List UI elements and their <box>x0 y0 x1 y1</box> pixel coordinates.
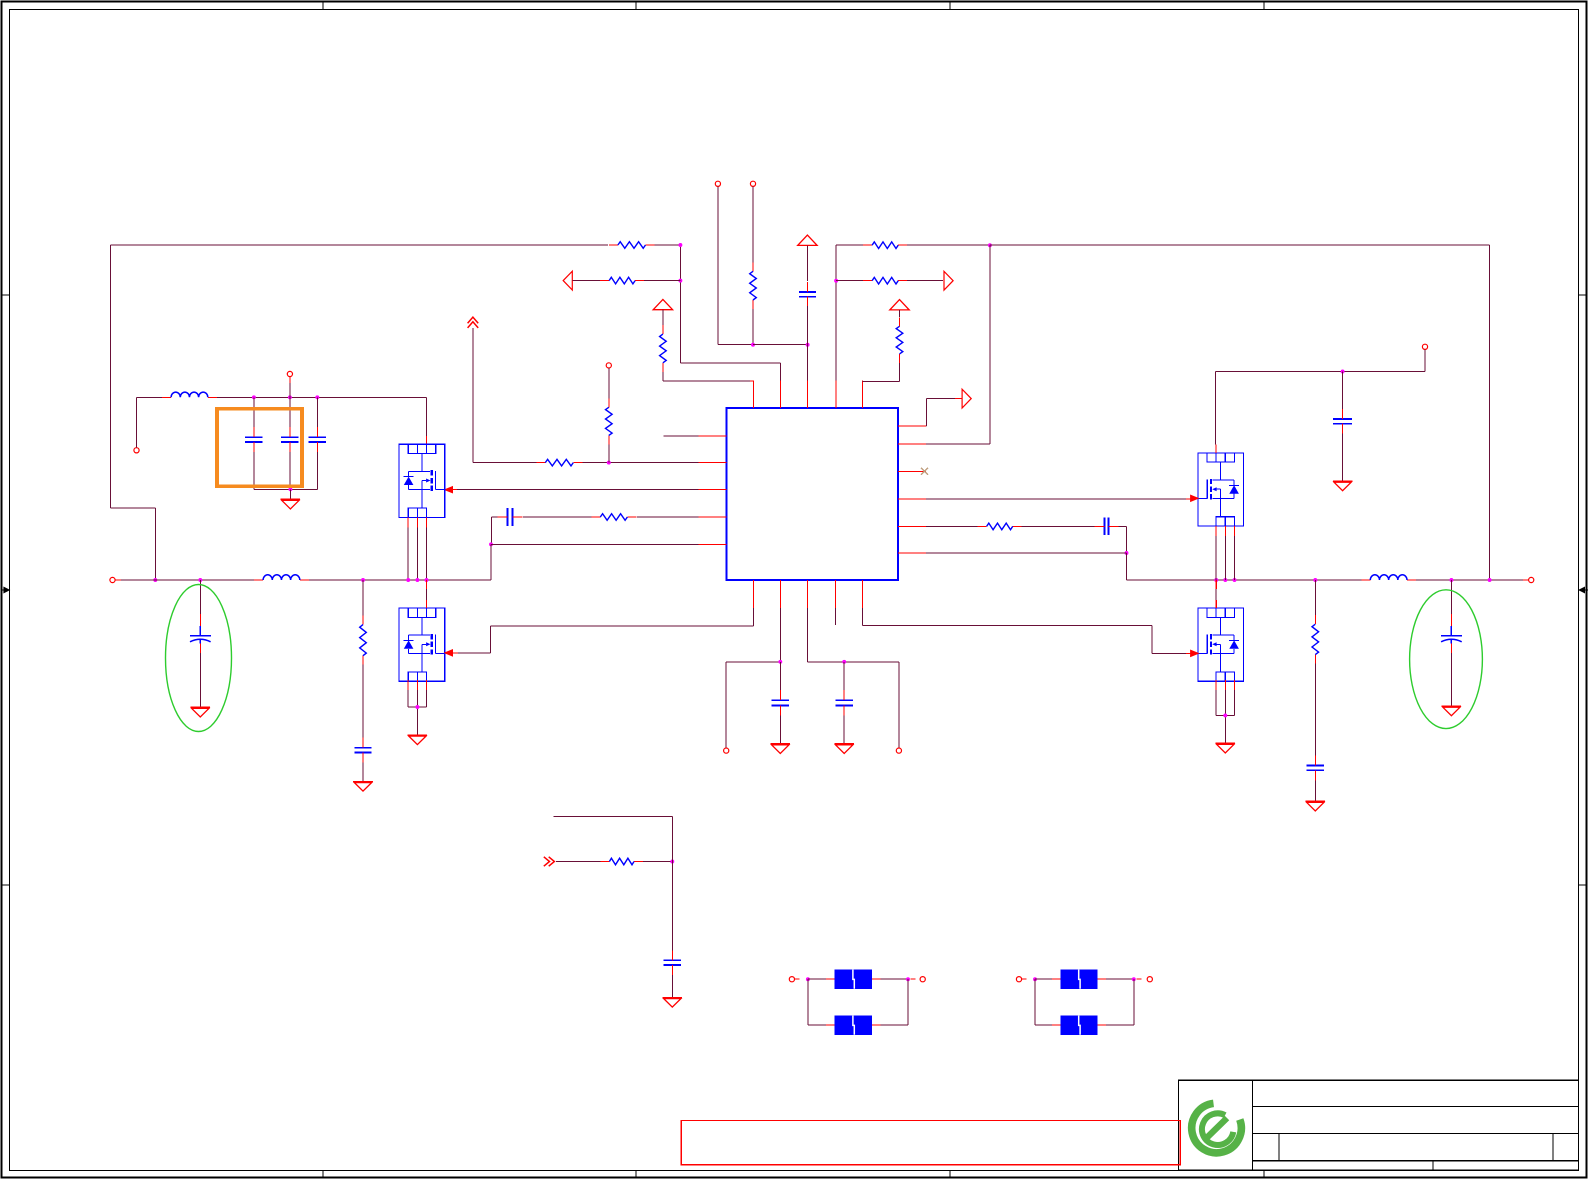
wire gnd stub <box>289 489 291 499</box>
wire gate Q2 <box>457 608 753 653</box>
resistor R5 <box>536 459 582 466</box>
capacitor C9 <box>836 690 853 715</box>
wire R1 to node A <box>655 244 681 246</box>
wire R6 to node E <box>608 444 610 462</box>
transistor Q4 <box>1198 608 1244 681</box>
junction node F <box>489 542 493 546</box>
ground G11 <box>1442 706 1462 716</box>
port arrow right1 <box>944 271 953 290</box>
wire R8 lead <box>362 580 364 616</box>
wire pinE segment <box>926 525 977 527</box>
ground G6 <box>771 744 791 754</box>
company logo <box>1192 1103 1242 1152</box>
port stub <box>1523 579 1529 581</box>
wire node G to IC pinB <box>926 245 990 444</box>
wire R9 to node G <box>907 244 990 246</box>
wire C8 lead <box>779 662 781 690</box>
power symbol chevron up <box>468 317 479 328</box>
resistor R1 <box>609 242 655 249</box>
power symbol VDD2 <box>653 299 672 309</box>
wire Q3 source pins <box>1216 526 1234 580</box>
wire node H to R10 <box>836 280 863 282</box>
wire C1 top lead <box>253 397 255 427</box>
wire VDD3 down <box>899 310 901 317</box>
junction <box>778 660 782 664</box>
wire VDD2 down <box>662 310 664 325</box>
wire gate Q4 <box>862 608 1188 653</box>
port F-left-1 <box>789 977 794 982</box>
junction <box>1223 578 1227 582</box>
junction <box>315 395 319 399</box>
capacitor C3 <box>309 427 326 452</box>
junction node G <box>988 243 992 247</box>
wire IC left pin1 stub <box>663 435 698 437</box>
gate arrow Q1 <box>445 487 453 493</box>
capacitor C6 electrolytic <box>190 614 211 653</box>
port arrow right2 <box>962 389 971 408</box>
wire pin2 net <box>726 608 780 748</box>
port VOUT-left <box>110 577 115 582</box>
frame left centering arrow <box>1 587 10 593</box>
junction <box>1223 713 1227 717</box>
fuse F1 <box>826 970 880 989</box>
wire Q1 source pins <box>408 517 426 580</box>
ground G7 <box>834 744 854 754</box>
ground G8 <box>1216 743 1236 753</box>
revision note box <box>681 1120 1180 1164</box>
pin stub top1 <box>750 380 753 383</box>
fuse F2 <box>826 1016 880 1035</box>
port P2 <box>750 181 755 186</box>
junction node D <box>806 343 810 347</box>
wire L1 to caps <box>217 396 426 398</box>
capacitor C14 <box>664 950 681 975</box>
wire node D to IC <box>807 345 809 381</box>
resistor R2 <box>600 277 644 284</box>
resistor R8 <box>360 616 367 665</box>
wire C3 top lead <box>316 397 318 427</box>
resistor R11 <box>896 317 903 363</box>
junction node I <box>1125 551 1129 555</box>
wire C1 bottom lead <box>253 452 255 489</box>
stub <box>795 978 800 980</box>
ground G1 <box>281 499 301 509</box>
wire C14 gnd lead <box>671 975 673 998</box>
no-connect X <box>921 468 928 475</box>
gate arrow stub Q1 <box>453 489 457 491</box>
wire C9 lead <box>843 662 845 690</box>
junction <box>1488 578 1492 582</box>
input filter highlight box <box>217 409 302 487</box>
wire fuse right bottom <box>1035 979 1134 1025</box>
IC U1 pin leads <box>699 380 927 608</box>
wire C12 lead <box>1450 580 1452 614</box>
resistor R14 <box>600 858 643 865</box>
wire top-right bus <box>990 245 1490 580</box>
wire node J down <box>671 862 673 951</box>
junction node E <box>607 461 611 465</box>
IC U1 <box>727 408 899 580</box>
port P5 <box>724 748 729 753</box>
junction <box>806 977 810 981</box>
wire to Q1 drain <box>425 397 427 436</box>
wire port P2 down <box>752 186 754 262</box>
wire fuse left top <box>808 978 908 980</box>
wire node J up <box>554 816 673 861</box>
junction <box>288 395 292 399</box>
port F-left-2 <box>920 977 925 982</box>
wire chevron down <box>473 328 536 462</box>
wire node I to bus <box>1127 553 1532 580</box>
wire pin5 net <box>491 543 699 545</box>
junction <box>425 578 429 582</box>
gate arrow stub Q3 <box>1186 498 1190 500</box>
port F-right-2 <box>1147 977 1152 982</box>
capacitor C4 <box>799 282 816 307</box>
transistor Q2 <box>399 608 445 681</box>
capacitor C13 <box>1333 409 1352 434</box>
junction <box>1214 578 1218 582</box>
capacitor C10 <box>1094 518 1118 536</box>
wire pin4 top chain <box>836 245 863 380</box>
wire C11 gnd lead <box>1314 780 1316 801</box>
wire C12 gnd lead <box>1450 653 1452 706</box>
wire P4 down <box>289 383 291 397</box>
title block <box>1178 1080 1578 1170</box>
capacitor C2 <box>281 427 298 452</box>
port VIN-left <box>134 448 139 453</box>
junction node J <box>670 860 674 864</box>
wire pinF net <box>926 552 1126 554</box>
wire C8 gnd lead <box>779 716 781 744</box>
junction <box>1233 578 1237 582</box>
wire port P1 down <box>718 186 753 344</box>
frame right centering arrow <box>1579 587 1588 593</box>
wire top-left bus <box>110 244 608 246</box>
junction <box>153 578 157 582</box>
junction <box>1313 578 1317 582</box>
resistor R9 <box>863 242 907 249</box>
wire VIN up <box>137 397 163 447</box>
port arrow left <box>563 271 572 290</box>
junction node B <box>678 279 682 283</box>
port F-right-1 <box>1016 977 1021 982</box>
wire C2 bottom lead <box>289 452 291 489</box>
junction <box>198 578 202 582</box>
wire C13 gnd lead <box>1342 434 1344 481</box>
port VOUT-right <box>1529 577 1534 582</box>
wire Q4 drain pin <box>1215 580 1217 608</box>
resistor R3 <box>750 262 757 309</box>
wire C9 gnd lead <box>843 716 845 744</box>
capacitor C12 electrolytic <box>1441 614 1462 653</box>
wire cap lead <box>199 580 201 614</box>
ground G10 <box>1333 481 1353 491</box>
power symbol VDD1 <box>798 235 817 245</box>
ground G4 <box>408 735 428 745</box>
inductor L3 <box>1361 575 1416 580</box>
capacitor C11 <box>1307 756 1324 781</box>
wire C4 to node D <box>807 306 809 345</box>
wire Q2 source pins <box>408 680 426 735</box>
junction <box>1341 370 1345 374</box>
resistor R7 <box>591 514 636 521</box>
gate arrow Q3 <box>1191 495 1199 501</box>
junction <box>288 487 292 491</box>
wire R3 to node C <box>752 309 754 345</box>
stub <box>1136 978 1141 980</box>
wire Q4 source pins <box>1216 680 1234 743</box>
junction <box>1033 977 1037 981</box>
highlight ellipse right <box>1410 590 1483 729</box>
Q1 drain stub <box>425 436 427 444</box>
capacitor C7 <box>354 738 371 763</box>
capacitor C1 <box>245 427 262 452</box>
wire R2 to node B <box>644 280 680 282</box>
capacitor C5 <box>497 508 522 526</box>
wire port P3 down <box>608 368 610 398</box>
wire left vertical <box>110 245 155 580</box>
wire R13 to C11 <box>1314 664 1316 756</box>
gate arrow Q2 <box>445 650 453 656</box>
wire fuse right top <box>1035 978 1134 980</box>
ground G9 <box>1306 801 1326 811</box>
ground G3 <box>353 782 373 792</box>
wire pin3 net <box>807 608 899 748</box>
wire pin4 stub <box>835 608 837 625</box>
junction <box>415 578 419 582</box>
port P4 <box>287 371 292 376</box>
wire R11 to IC <box>862 363 899 382</box>
wire VDD1 down <box>806 246 808 282</box>
wire node A vertical <box>680 245 780 380</box>
wire cap bottom rail <box>254 488 317 490</box>
junction <box>1132 977 1136 981</box>
highlight ellipse left <box>166 585 232 732</box>
inductor L1 <box>162 392 217 397</box>
wire gate Q3 <box>926 498 1188 500</box>
power chevron right <box>544 857 555 866</box>
wire R13 lead <box>1314 580 1316 615</box>
fuse F3 <box>1052 970 1106 989</box>
fuse F4 <box>1052 1016 1106 1035</box>
resistor R6 <box>606 398 613 444</box>
transistor Q1 <box>399 444 445 517</box>
wire R14 to node J <box>643 861 672 863</box>
resistor R4 <box>660 325 667 372</box>
junction <box>406 578 410 582</box>
junction <box>906 977 910 981</box>
inductor L2 <box>254 575 309 580</box>
wire R12 to C10 <box>1022 525 1095 527</box>
wire R10 to arrow <box>907 280 943 282</box>
wire R5 to junction <box>582 462 698 464</box>
arrow stub <box>955 398 962 400</box>
wire gate Q1 <box>455 489 699 491</box>
junction <box>252 395 256 399</box>
wire pin4 segment <box>637 516 699 518</box>
wire R4 to IC pin <box>663 372 750 381</box>
junction node H <box>834 279 838 283</box>
wire C7 to gnd <box>362 762 364 781</box>
capacitor C8 <box>772 690 789 715</box>
wire C13 lead <box>1342 372 1344 410</box>
wire node C to node D <box>753 344 808 346</box>
wire C2 top lead <box>289 397 291 427</box>
port P6 <box>896 748 901 753</box>
transistor Q3 <box>1198 453 1244 526</box>
junction <box>415 705 419 709</box>
junction <box>1449 578 1453 582</box>
port stub <box>115 579 121 581</box>
wire chevron to R14 <box>556 861 600 863</box>
ground G5 <box>663 998 683 1008</box>
wire node F to bus <box>113 544 492 580</box>
resistor R10 <box>863 277 907 284</box>
wire C10 corner <box>1118 526 1126 553</box>
stub <box>1022 978 1027 980</box>
wire pinA net <box>926 399 955 427</box>
junction <box>842 660 846 664</box>
wire C5 corner <box>492 517 498 544</box>
junction node C <box>751 343 755 347</box>
wire fuse left bottom <box>808 979 908 1025</box>
port P4 stub <box>289 377 291 383</box>
resistor R12 <box>978 523 1022 530</box>
wire R7 to C5 <box>523 516 592 518</box>
port P7 <box>1422 344 1427 349</box>
port P3 <box>606 363 611 368</box>
stub <box>911 978 916 980</box>
gate arrow stub Q4 <box>1186 652 1190 654</box>
gate arrow stub Q2 <box>453 652 458 654</box>
Q3 drain stub <box>1215 444 1217 453</box>
junction <box>361 578 365 582</box>
wire C6 to gnd <box>199 653 201 707</box>
wire P7 down <box>1215 349 1425 444</box>
junction node A <box>678 243 682 247</box>
gate arrow Q4 <box>1191 650 1199 656</box>
port P1 <box>715 181 720 186</box>
power symbol VDD3 <box>890 300 909 310</box>
wire C3 bottom lead <box>316 452 318 489</box>
ground G2 <box>191 707 211 717</box>
wire arrow to R2 <box>572 280 600 282</box>
resistor R13 <box>1312 615 1319 663</box>
port stub <box>725 747 727 749</box>
wire Q2 drain pin <box>426 580 428 608</box>
wire R8 to C7 <box>362 665 364 738</box>
